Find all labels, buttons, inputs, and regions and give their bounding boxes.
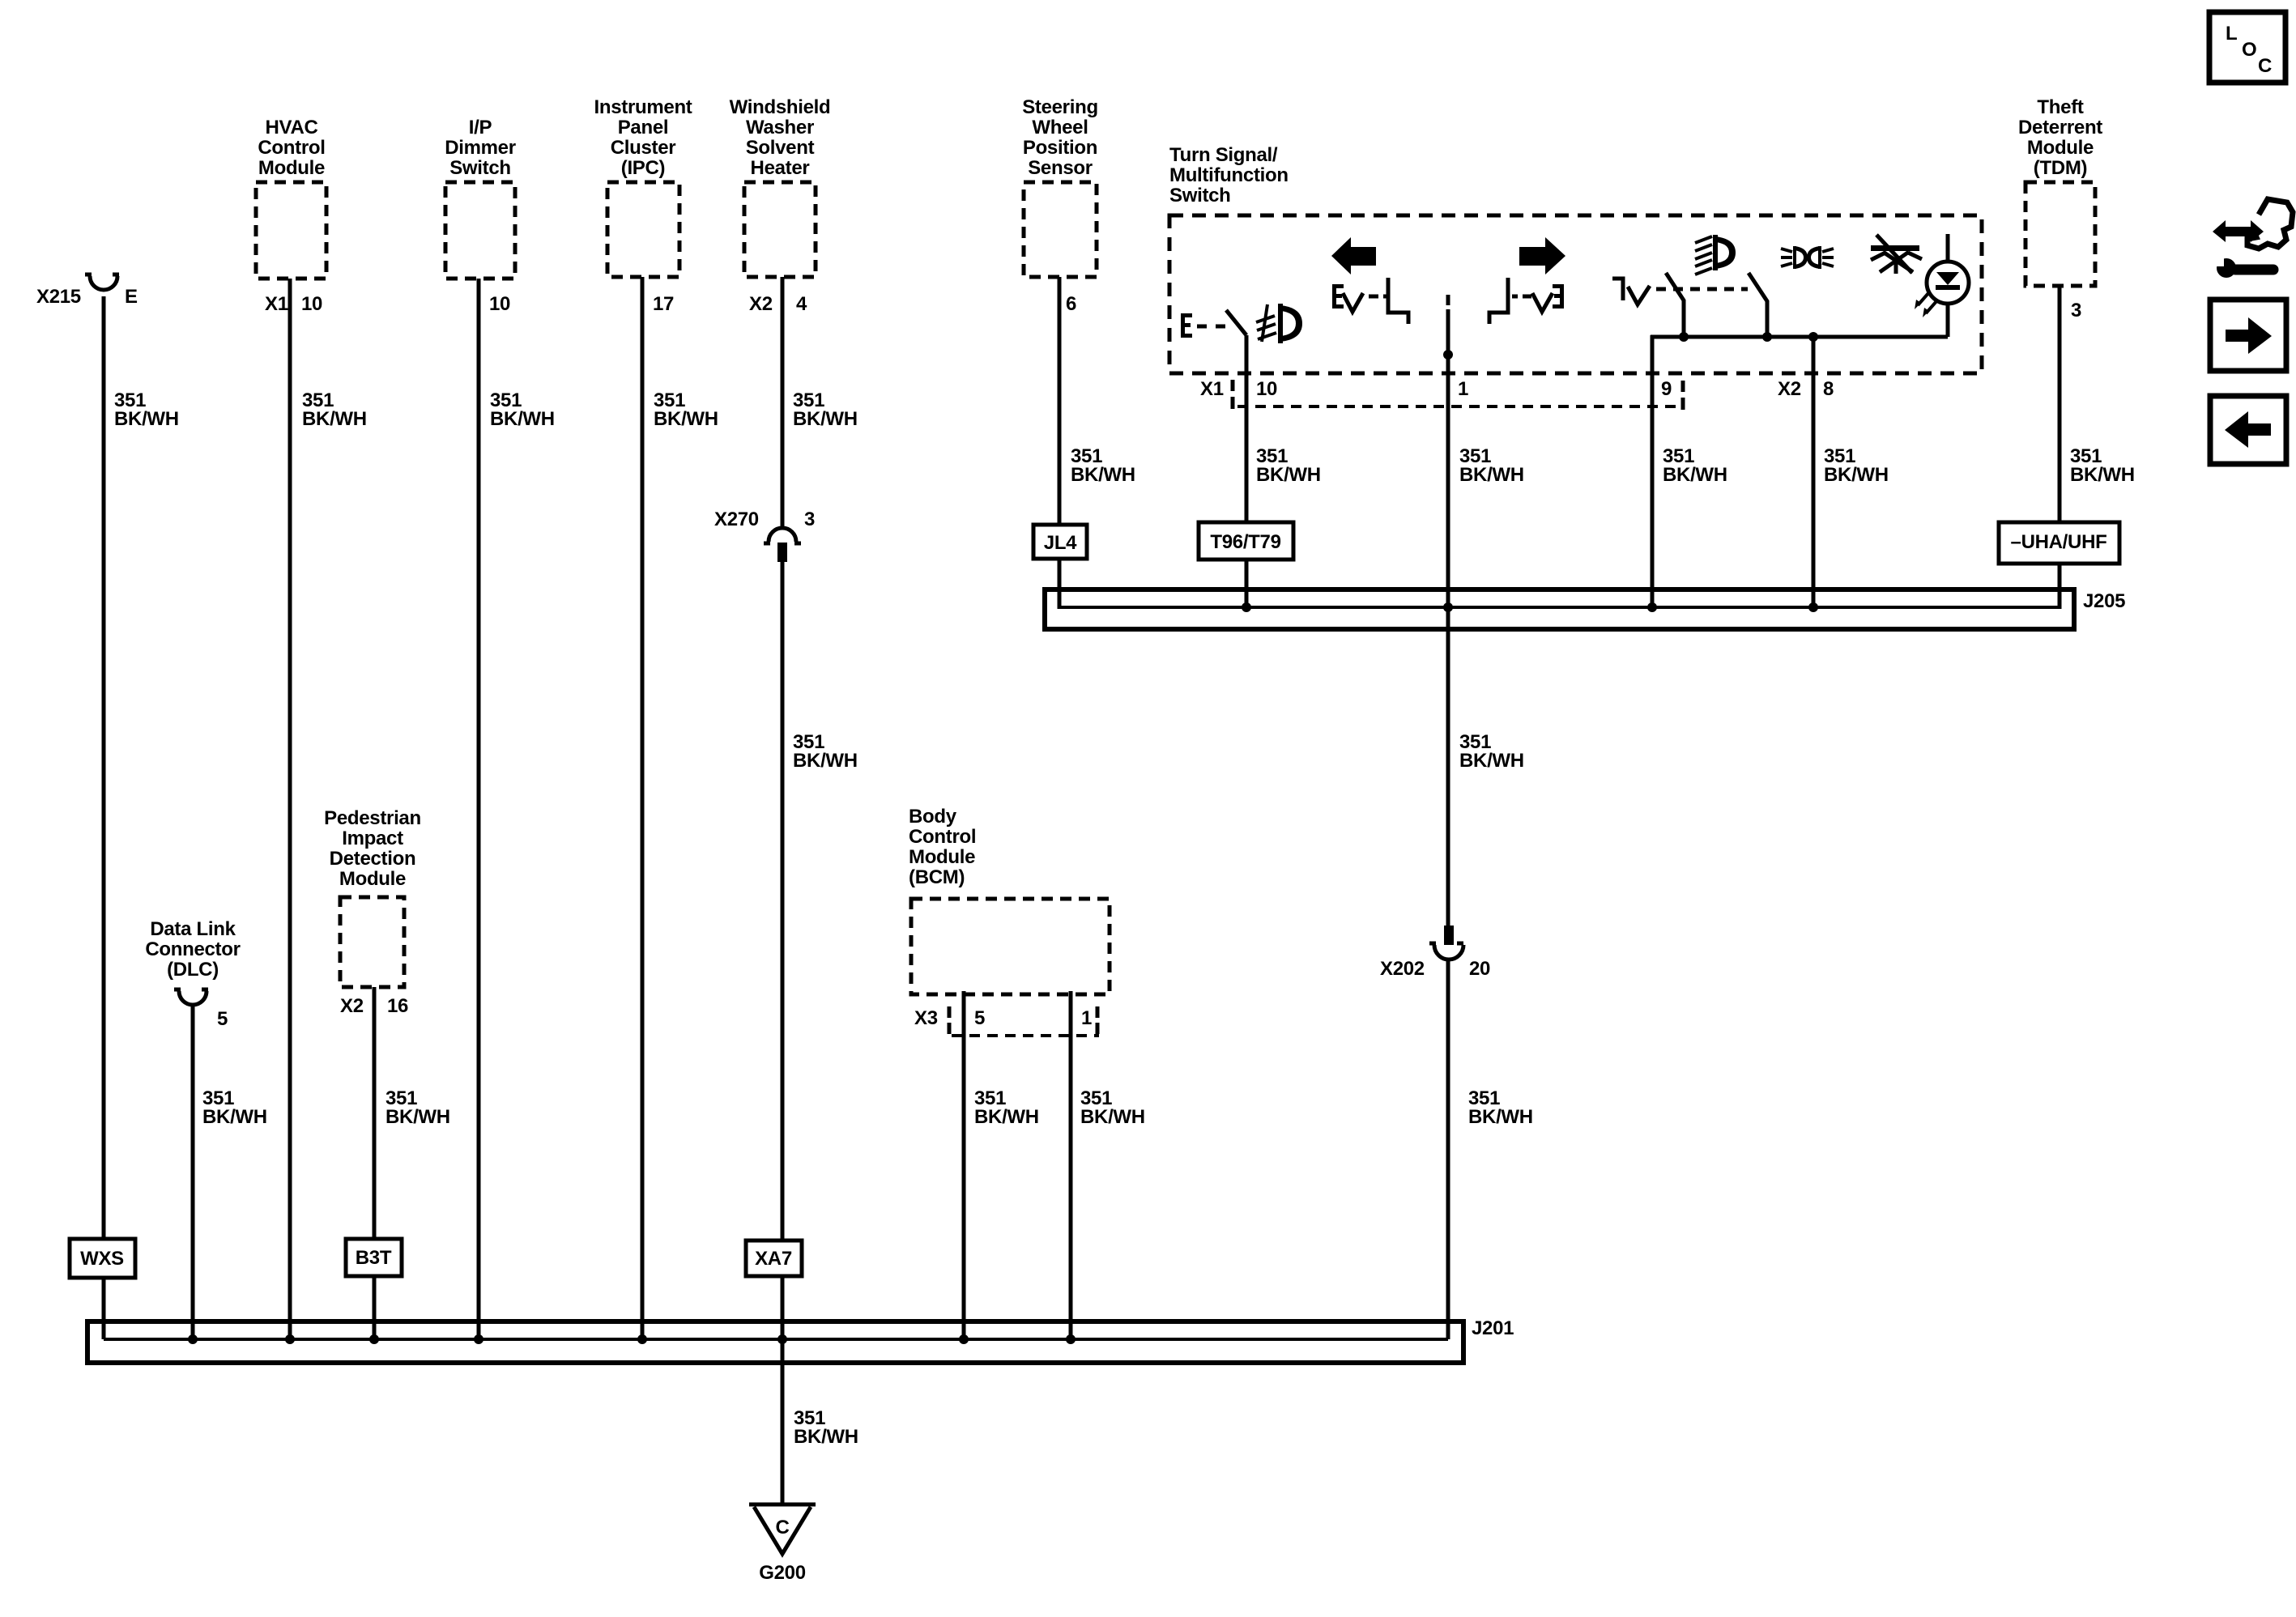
wire label 351 BK/WH (switch pin 8) [1824,445,1889,486]
option box T96/T79 [1199,522,1293,560]
icon left turn arrow [1331,237,1376,274]
svg-text:Dimmer: Dimmer [445,137,516,159]
svg-text:Position: Position [1023,137,1097,159]
splice pack J205 [1045,589,2125,629]
connector DLC (Data Link Connector) [145,918,240,1030]
svg-text:BK/WH: BK/WH [793,750,858,772]
junction dot J205 pin9 wire [1647,602,1657,612]
svg-text:XA7: XA7 [755,1248,792,1270]
svg-text:Wheel: Wheel [1032,117,1088,138]
svg-text:20: 20 [1469,958,1490,980]
svg-text:X3: X3 [914,1007,938,1029]
icon wiring repair (hand and wrench) [2213,199,2293,278]
wire JL4 to J205 [1058,559,1062,609]
fixed contact bracket (left turn) [1388,278,1408,324]
svg-text:B3T: B3T [356,1247,392,1269]
wire label 351 BK/WH (BCM pin 1) [1080,1087,1145,1128]
svg-text:J205: J205 [2083,590,2125,612]
module Windshield Washer Solvent Heater [730,96,831,277]
connector X215 [36,274,138,308]
svg-text:T96/T79: T96/T79 [1210,531,1280,553]
pin labels X2 8 (switch) [1778,378,1834,400]
svg-text:X215: X215 [36,286,81,308]
svg-text:BK/WH: BK/WH [794,1426,858,1448]
svg-text:Windshield: Windshield [730,96,831,118]
svg-text:(DLC): (DLC) [167,959,219,981]
junction dot J205 pin8 wire [1808,602,1818,612]
svg-text:Module: Module [339,868,406,890]
wire I/P Dimmer to J201 [477,279,481,1339]
option box -UHA/UHF [1999,522,2119,564]
connector X270 pin 3 [714,509,815,562]
svg-text:BK/WH: BK/WH [114,408,179,430]
pin X2 16 (pedestrian module) [340,995,408,1017]
svg-text:16: 16 [387,995,408,1017]
junction dot J201 ground wire [777,1334,787,1344]
svg-text:BK/WH: BK/WH [1080,1106,1145,1128]
connector X3 dashed underline (BCM) [952,1034,1099,1037]
svg-text:Module: Module [909,846,975,868]
wire switch pin 9 to J205 [1651,335,1655,609]
wire X270 to XA7 [781,562,785,1240]
pin labels X3 5 1 (BCM) [914,1007,1092,1029]
svg-text:Switch: Switch [449,157,511,179]
svg-text:C: C [2258,55,2272,77]
svg-text:4: 4 [796,293,807,315]
svg-text:BK/WH: BK/WH [490,408,555,430]
svg-text:Impact: Impact [342,828,403,849]
junction dot low beam blade [1679,332,1689,342]
wire WXS to J201 [102,1278,106,1339]
headlamp flash icon [1781,246,1834,269]
junction dot J201 HVAC wire [285,1334,295,1344]
wire label 351 BK/WH (washer) [793,389,858,430]
wire label 351 BK/WH (X202 to J201) [1468,1087,1533,1128]
junction dot J205 pin1 wire [1443,602,1453,612]
junction dot J201 B3T wire [369,1334,379,1344]
wire switch pin 8 to J205 [1812,337,1816,609]
wire label 351 BK/WH (J205 to X202) [1459,731,1524,772]
option box JL4 [1033,525,1087,559]
svg-text:BK/WH: BK/WH [1459,750,1524,772]
svg-text:Theft: Theft [2037,96,2083,118]
svg-text:X2: X2 [340,995,364,1017]
svg-text:BK/WH: BK/WH [1663,464,1727,486]
svg-text:L: L [2226,23,2237,45]
wire label 351 BK/WH (X215) [114,389,179,430]
svg-text:Connector: Connector [145,938,240,960]
svg-text:Detection: Detection [330,848,416,870]
legend box arrow right [2210,300,2286,371]
junction dot pin 8 tap [1808,332,1818,342]
wire headlamp collector [1651,335,1948,339]
connector X3 dashed tick (BCM) [948,1006,952,1034]
svg-text:O: O [2242,39,2256,61]
switch blade (low beam, pin 9) [1666,273,1684,337]
node E (fog lamp switch common) [1181,313,1192,338]
security indicator icon (crossed) [1871,235,1922,274]
bus wire J205 [1059,606,2060,609]
junction dot J201 dimmer wire [474,1334,483,1344]
svg-text:I/P: I/P [469,117,492,138]
svg-text:3: 3 [804,509,815,530]
switch blade (flash to pass) [1749,273,1767,337]
wire TDM pin 3 to -UHA/UHF [2058,286,2062,522]
switch assembly Turn Signal/Multifunction Switch [1169,144,1982,373]
option box XA7 [746,1240,802,1276]
wire label 351 BK/WH (switch pin 10) [1256,445,1321,486]
svg-text:G200: G200 [759,1562,806,1584]
pin X1 10 (HVAC) [265,293,322,315]
svg-text:BK/WH: BK/WH [2070,464,2135,486]
svg-text:Panel: Panel [618,117,669,138]
junction dot J205 pin10 wire [1242,602,1251,612]
svg-text:E: E [125,286,138,308]
high beam icon [1695,235,1736,274]
icon right turn arrow [1519,237,1565,274]
wire label 351 BK/WH (IPC) [654,389,718,430]
wire -UHA/UHF to J205 [2058,564,2062,609]
svg-text:Turn Signal/: Turn Signal/ [1169,144,1278,166]
svg-text:HVAC: HVAC [265,117,317,138]
wire steering sensor to JL4 [1058,277,1062,525]
svg-text:Sensor: Sensor [1028,157,1093,179]
svg-text:X2: X2 [1778,378,1801,400]
node E mirrored (right turn contact) [1553,284,1564,309]
svg-text:BK/WH: BK/WH [654,408,718,430]
svg-text:Steering: Steering [1022,96,1098,118]
svg-text:(IPC): (IPC) [621,157,666,179]
svg-text:Switch: Switch [1169,185,1231,206]
svg-text:Instrument: Instrument [594,96,692,118]
svg-text:BK/WH: BK/WH [793,408,858,430]
svg-text:Washer: Washer [746,117,814,138]
wire BCM pin 5 to J201 [962,991,966,1339]
LED emission arrows [1915,292,1937,317]
bus wire J201 [104,1338,1448,1341]
svg-text:Control: Control [258,137,325,159]
wire label 351 BK/WH (below X270) [793,731,858,772]
svg-text:1: 1 [1458,378,1468,400]
svg-text:10: 10 [1256,378,1277,400]
svg-text:WXS: WXS [80,1248,124,1270]
svg-text:10: 10 [301,293,322,315]
svg-text:Data Link: Data Link [150,918,236,940]
module Instrument Panel Cluster (IPC) [594,96,692,277]
svg-text:Solvent: Solvent [746,137,815,159]
svg-text:X202: X202 [1380,958,1425,980]
svg-text:JL4: JL4 [1044,532,1077,554]
svg-text:5: 5 [974,1007,985,1029]
svg-text:BK/WH: BK/WH [1459,464,1524,486]
wire label 351 BK/WH (steering) [1071,445,1135,486]
switch blade (fog lamp) [1226,310,1246,335]
wire HVAC pin 10 to J201 [288,279,292,1339]
svg-text:C: C [775,1517,789,1538]
svg-text:BK/WH: BK/WH [1071,464,1135,486]
wire X215 to WXS [102,296,106,1239]
wire B3T to J201 [373,1276,377,1339]
node E (left turn contact) [1332,284,1344,309]
svg-text:Deterrent: Deterrent [2018,117,2102,138]
connector X1 dashed tick right (switch) [1681,381,1685,410]
wire X202 to J201 [1446,960,1450,1339]
svg-text:BK/WH: BK/WH [1824,464,1889,486]
svg-text:(BCM): (BCM) [909,866,965,888]
wire DLC pin 5 to J201 [191,1006,195,1339]
connector X3 dashed tick right (BCM) [1096,1006,1100,1034]
svg-text:BK/WH: BK/WH [386,1106,450,1128]
wire label 351 BK/WH (pedestrian) [386,1087,450,1128]
wire washer heater to X270 [781,277,785,528]
wire label 351 BK/WH (TDM) [2070,445,2135,486]
wire dashed left contact link [1369,295,1388,299]
svg-text:Heater: Heater [751,157,810,179]
svg-text:X1: X1 [265,293,288,315]
fog lamp icon [1256,304,1302,343]
splice pack J201 [87,1317,1514,1363]
connector X1 dashed underline (switch) [1237,405,1683,408]
pin X2 4 (washer heater) [749,293,807,315]
svg-text:6: 6 [1066,293,1076,315]
wire label 351 BK/WH (I/P Dimmer) [490,389,555,430]
wire XA7 to J201 and ground [781,1276,785,1504]
junction dot pin 1 [1443,350,1453,360]
junction dot J201 DLC wire [188,1334,198,1344]
svg-text:X1: X1 [1200,378,1224,400]
module HVAC Control Module [256,117,326,279]
wire IPC to J201 [641,277,645,1339]
svg-text:–UHA/UHF: –UHA/UHF [2011,531,2107,553]
svg-text:J201: J201 [1472,1317,1514,1339]
wire T96/T79 to J205 [1245,560,1249,609]
svg-text:9: 9 [1661,378,1672,400]
wire dashed mechanical link (headlamp) [1656,287,1748,291]
svg-text:Module: Module [2027,137,2094,159]
wire label 351 BK/WH (ground lead) [794,1407,858,1448]
svg-text:Pedestrian: Pedestrian [324,807,421,829]
wire dashed right contact link [1512,295,1531,299]
pin labels X1 10 (switch) [1200,378,1277,400]
svg-text:BK/WH: BK/WH [1256,464,1321,486]
svg-text:Multifunction: Multifunction [1169,164,1289,186]
fuse box WXS [70,1239,135,1278]
svg-text:Module: Module [258,157,325,179]
wire dashed stub pin 1 [1446,295,1450,305]
check mark (right turn wiper) [1532,293,1553,312]
LED security indicator [1927,234,1969,337]
wire label 351 BK/WH (DLC) [202,1087,267,1128]
wire BCM pin 1 to J201 [1069,991,1073,1339]
svg-text:8: 8 [1823,378,1834,400]
svg-text:10: 10 [489,293,510,315]
svg-text:X2: X2 [749,293,773,315]
wire label 351 BK/WH (switch pin 9) [1663,445,1727,486]
svg-text:Control: Control [909,826,976,848]
wire fog switch pin X1-10 to T96/T79 [1245,335,1249,522]
wire label 351 BK/WH (HVAC) [302,389,367,430]
wire dashed E to fog switch [1197,325,1225,329]
legend box arrow left [2210,396,2286,464]
svg-text:Cluster: Cluster [611,137,676,159]
junction dot J201 BCM1 wire [1066,1334,1076,1344]
option box B3T [346,1239,402,1276]
svg-text:BK/WH: BK/WH [302,408,367,430]
ground G200 [749,1504,816,1584]
svg-text:X270: X270 [714,509,759,530]
svg-text:BK/WH: BK/WH [974,1106,1039,1128]
connector X202 pin 20 [1380,926,1490,980]
junction dot J201 BCM5 wire [959,1334,969,1344]
module I/P Dimmer Switch [445,117,516,279]
svg-text:17: 17 [653,293,674,315]
module Pedestrian Impact Detection Module [324,807,421,987]
svg-text:1: 1 [1081,1007,1092,1029]
junction dot J201 IPC wire [637,1334,647,1344]
svg-text:5: 5 [217,1008,228,1030]
check mark (headlamp common) [1628,286,1650,304]
wire pedestrian module to B3T [373,987,377,1239]
headlamp switch common contact [1612,279,1623,300]
wire pin 1 common feed [1446,309,1450,926]
legend box LOC [2209,12,2285,83]
wire label 351 BK/WH (BCM pin 5) [974,1087,1039,1128]
module Theft Deterrent Module (TDM) [2018,96,2102,286]
module Steering Wheel Position Sensor [1022,96,1098,277]
fixed contact bracket (right turn) [1489,278,1508,324]
svg-text:BK/WH: BK/WH [202,1106,267,1128]
junction dot flash blade [1762,332,1772,342]
wire label 351 BK/WH (switch pin 1) [1459,445,1524,486]
check mark (left turn wiper) [1343,293,1363,312]
svg-text:Body: Body [909,806,957,828]
svg-text:BK/WH: BK/WH [1468,1106,1533,1128]
connector X1 dashed tick (switch) [1231,380,1235,409]
svg-text:(TDM): (TDM) [2034,157,2087,179]
svg-text:3: 3 [2071,300,2081,321]
module Body Control Module (BCM) [909,806,1110,994]
